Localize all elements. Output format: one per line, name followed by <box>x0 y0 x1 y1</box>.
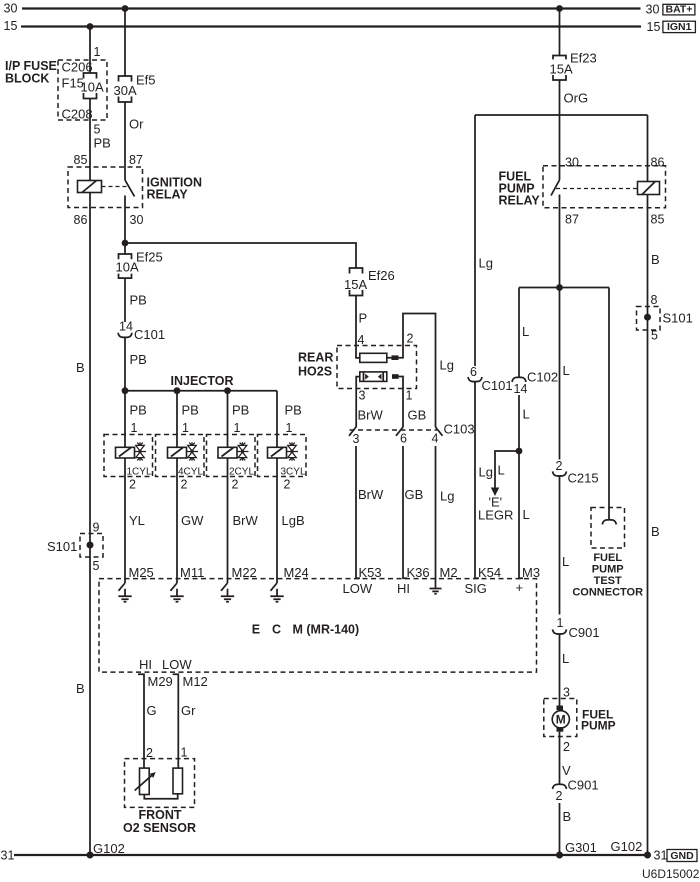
injector 4CYL valve symbol <box>187 442 199 461</box>
rear HO2S dashed box <box>337 346 417 389</box>
svg-text:S101: S101 <box>47 539 77 554</box>
junction on bus 30 at x=559.5 <box>556 5 563 12</box>
svg-text:+: + <box>516 580 524 595</box>
svg-text:C101: C101 <box>482 378 513 393</box>
svg-text:G301: G301 <box>565 840 597 855</box>
svg-text:U6D15002: U6D15002 <box>642 867 700 881</box>
wire branch from junction to Ef26 column <box>125 243 356 268</box>
injector 4CYL dashed box <box>156 435 205 477</box>
connector C103 tick at pin 6 <box>396 427 403 436</box>
fuel pump motor terminal top <box>557 706 564 711</box>
svg-text:GB: GB <box>405 487 424 502</box>
connector C901 symbol (pin 1) <box>553 629 567 634</box>
svg-text:1: 1 <box>182 421 189 435</box>
wire injector 4CYL column down to ECM pin M11 <box>176 391 178 583</box>
junction for EGR E branch <box>516 448 523 455</box>
svg-text:14: 14 <box>514 382 528 396</box>
svg-text:Lg: Lg <box>440 358 454 373</box>
front O2 sensor sensing element <box>135 768 156 794</box>
fuse Ef25 symbol <box>119 254 132 278</box>
svg-text:M: M <box>556 713 566 727</box>
wire from bus 15 down left column (to fuse F15) <box>89 27 91 74</box>
svg-text:G102: G102 <box>93 841 125 856</box>
svg-text:Ef25: Ef25 <box>136 249 163 264</box>
net IGN1 boxed label <box>663 21 696 33</box>
svg-text:3: 3 <box>359 389 366 403</box>
svg-text:HI: HI <box>139 657 152 672</box>
fuel pump test connector name <box>572 552 643 599</box>
svg-text:PB: PB <box>130 293 147 308</box>
svg-text:2: 2 <box>407 332 414 346</box>
svg-text:L: L <box>498 463 505 478</box>
svg-text:L: L <box>563 363 570 378</box>
wire injector 3CYL column down to ECM pin M24 <box>276 391 278 583</box>
svg-text:M2: M2 <box>440 565 458 580</box>
rear HO2S heater terminal <box>392 374 399 379</box>
svg-text:31: 31 <box>654 849 668 863</box>
svg-text:15: 15 <box>4 19 18 33</box>
svg-text:3: 3 <box>353 432 360 446</box>
connector C103 dashed line <box>350 429 438 431</box>
svg-text:OrG: OrG <box>564 91 589 106</box>
wire Ef23 to fuel pump relay pin 30 <box>559 80 561 180</box>
svg-text:IGN1: IGN1 <box>667 21 692 33</box>
connector C101 symbol (pin 6) <box>468 377 482 382</box>
ECM pin M22 tick <box>221 583 228 591</box>
svg-text:2: 2 <box>129 478 136 492</box>
wire C101 to injector bus and injector 1 down to ECM pin M25 <box>124 337 126 583</box>
arrow to E (LEGR) <box>491 488 499 497</box>
fuse F15 10A symbol <box>84 73 97 99</box>
svg-text:2: 2 <box>232 478 239 492</box>
net BAT+ boxed label <box>663 4 695 16</box>
svg-text:1: 1 <box>286 421 293 435</box>
svg-text:REAR: REAR <box>298 351 333 365</box>
wire fuel pump relay 87 down to junction and fuel pump <box>559 195 561 460</box>
svg-text:2: 2 <box>556 789 563 803</box>
injector 3CYL dashed box <box>258 435 307 477</box>
svg-text:O2 SENSOR: O2 SENSOR <box>123 821 196 835</box>
svg-text:30: 30 <box>646 3 660 17</box>
svg-text:1: 1 <box>181 746 188 760</box>
wire from Ef5 to ignition relay switch pin 87 <box>124 102 126 180</box>
wire HO2S heater pin 3 to C103 <box>356 377 360 428</box>
svg-text:B: B <box>76 360 85 375</box>
svg-text:M12: M12 <box>183 674 208 689</box>
svg-text:GB: GB <box>408 408 427 423</box>
svg-text:CONNECTOR: CONNECTOR <box>572 587 643 599</box>
svg-text:87: 87 <box>129 153 143 167</box>
svg-text:BrW: BrW <box>233 513 259 528</box>
front O2 sensor dashed box <box>125 759 195 808</box>
svg-text:B: B <box>76 681 85 696</box>
fuel pump dashed box <box>544 699 577 737</box>
wire bus 31 <box>14 854 648 856</box>
svg-text:2: 2 <box>556 459 563 473</box>
svg-text:2: 2 <box>563 740 570 754</box>
ECM pin M11 tick <box>171 583 178 591</box>
svg-text:30: 30 <box>565 156 579 170</box>
svg-text:Ef5: Ef5 <box>136 73 156 88</box>
wire Ef25 to connector C101 <box>124 278 126 322</box>
rear HO2S sensing element terminal <box>392 355 399 360</box>
svg-text:86: 86 <box>651 156 665 170</box>
ground inside ECM at M2 <box>430 589 442 594</box>
wire E branch <box>495 451 519 488</box>
wire left side Lg down to connector C101 pin 6 <box>474 115 476 366</box>
wire bus 30 <box>22 7 641 9</box>
svg-text:FUEL: FUEL <box>593 552 622 564</box>
svg-text:(MR-140): (MR-140) <box>306 623 359 637</box>
wire injector supply bus <box>125 390 277 392</box>
relay fuel pump relay dashed box <box>543 166 666 208</box>
junction injector bus at x=227.5 <box>224 387 231 394</box>
wire horizontal branch below relay <box>519 287 609 289</box>
splice S101 dot (left) <box>87 542 94 549</box>
splice S101 dashed box (right) <box>637 307 661 331</box>
junction on bus 30 at x=125 <box>122 5 129 12</box>
svg-text:85: 85 <box>651 213 665 227</box>
svg-text:15: 15 <box>647 20 661 34</box>
svg-text:LEGR: LEGR <box>478 508 513 523</box>
svg-text:1CYL: 1CYL <box>127 466 152 477</box>
svg-text:31: 31 <box>1 849 15 863</box>
svg-text:C102: C102 <box>527 370 558 385</box>
junction on bus 15 at x=90 <box>87 23 94 30</box>
wire C901 pin 2 to ground bus <box>559 803 561 855</box>
svg-text:FRONT: FRONT <box>138 808 181 822</box>
svg-text:2CYL: 2CYL <box>229 466 254 477</box>
svg-text:9: 9 <box>93 521 100 535</box>
svg-text:1: 1 <box>406 389 413 403</box>
svg-text:3: 3 <box>563 686 570 700</box>
svg-text:Gr: Gr <box>181 703 196 718</box>
svg-text:LOW: LOW <box>343 581 373 596</box>
svg-text:10A: 10A <box>116 259 139 274</box>
svg-text:10A: 10A <box>81 80 104 95</box>
wire test connector branch <box>608 288 610 520</box>
fuse Ef26 symbol <box>350 268 363 296</box>
wire C901 to fuel pump <box>559 634 561 706</box>
svg-text:14: 14 <box>119 320 133 334</box>
connector C103 tick at pin 4 <box>436 427 443 436</box>
svg-text:C103: C103 <box>444 422 475 437</box>
ground inside ECM at M11 <box>170 589 183 602</box>
injector 2CYL dashed box <box>207 435 256 477</box>
injector 4CYL coil <box>168 447 187 458</box>
svg-text:8: 8 <box>651 293 658 307</box>
injector 3CYL coil <box>268 447 287 458</box>
svg-text:BrW: BrW <box>358 408 384 423</box>
relay U ignition relay dashed box <box>68 167 143 208</box>
svg-text:30: 30 <box>130 213 144 227</box>
injector 2CYL valve symbol <box>237 442 249 461</box>
fuel pump test connector symbol <box>602 520 616 525</box>
svg-text:YL: YL <box>129 513 145 528</box>
svg-text:M22: M22 <box>232 565 257 580</box>
fuel pump test connector dashed box <box>591 508 625 549</box>
injector 1CYL dashed box <box>104 435 153 477</box>
svg-text:L: L <box>523 507 530 522</box>
wire C101 pin 6 to ECM pin K54 <box>475 382 479 579</box>
wire C103 to ECM pin K53 <box>356 446 360 578</box>
svg-text:6: 6 <box>470 365 477 379</box>
svg-text:1: 1 <box>94 45 101 59</box>
svg-text:K36: K36 <box>407 565 430 580</box>
ECM pin M24 tick <box>271 583 278 591</box>
svg-text:Ef26: Ef26 <box>368 268 395 283</box>
svg-text:HO2S: HO2S <box>298 365 332 379</box>
wire branch L to C102 and ECM pin M3 <box>518 288 520 378</box>
fuse Ef5 symbol <box>119 76 132 102</box>
svg-text:1: 1 <box>131 421 138 435</box>
svg-text:BAT+: BAT+ <box>666 4 693 16</box>
wire bus 15 <box>21 25 641 27</box>
ignition relay coil-switch dashed link <box>102 186 127 188</box>
connector C101 symbol <box>118 333 132 338</box>
svg-text:PUMP: PUMP <box>592 564 624 576</box>
svg-text:PB: PB <box>285 403 302 418</box>
svg-text:L: L <box>562 554 569 569</box>
svg-text:SIG: SIG <box>465 581 487 596</box>
wire right side down to fuel pump relay pin 86 <box>647 115 649 855</box>
svg-text:15A: 15A <box>550 61 573 76</box>
svg-text:INJECTOR: INJECTOR <box>171 374 234 388</box>
svg-text:PB: PB <box>94 136 111 151</box>
svg-text:M29: M29 <box>148 674 173 689</box>
connector C215 symbol <box>553 471 567 476</box>
svg-text:4CYL: 4CYL <box>178 466 203 477</box>
svg-text:LgB: LgB <box>282 513 305 528</box>
svg-text:K53: K53 <box>359 565 382 580</box>
connector C102 symbol <box>512 377 526 382</box>
svg-text:Lg: Lg <box>479 256 493 271</box>
svg-text:HI: HI <box>397 581 410 596</box>
wire C103 to ECM pin M2 <box>435 446 437 589</box>
svg-text:15A: 15A <box>344 277 367 292</box>
wire bus 30 to fuse Ef23 <box>559 9 561 56</box>
ground inside ECM at M22 <box>221 589 234 602</box>
svg-text:B: B <box>651 252 660 267</box>
svg-text:B: B <box>563 809 572 824</box>
svg-text:PUMP: PUMP <box>581 719 616 733</box>
injector 2CYL coil <box>218 447 237 458</box>
wire from fuse F15 down to ignition relay coil pin 85 and on down (left B wire) <box>89 99 91 856</box>
svg-text:C208: C208 <box>62 107 93 122</box>
svg-text:86: 86 <box>74 213 88 227</box>
splice S101 dashed box (left) <box>80 534 103 558</box>
svg-text:L: L <box>562 651 569 666</box>
svg-text:30: 30 <box>4 2 18 16</box>
wire injector 2CYL column down to ECM pin M22 <box>227 391 229 583</box>
svg-text:BrW: BrW <box>358 487 384 502</box>
junction injector bus at x=177 <box>174 387 181 394</box>
wire front O2 sensor bottom link <box>144 794 177 799</box>
svg-text:Or: Or <box>129 117 144 132</box>
svg-text:C901: C901 <box>569 625 600 640</box>
svg-text:2: 2 <box>181 478 188 492</box>
fuel pump relay switch arm <box>551 180 560 196</box>
splice S101 dot (right) <box>644 314 651 321</box>
I/P fuse block dashed box <box>58 60 107 120</box>
svg-text:L: L <box>523 407 530 422</box>
injector 1CYL coil <box>116 447 135 458</box>
svg-text:BLOCK: BLOCK <box>5 72 49 86</box>
wire from bus 30 down to fuse Ef5 <box>124 9 126 77</box>
connector C901 symbol (pin 2, facing down) <box>553 784 567 789</box>
fuse Ef23 symbol <box>553 56 566 81</box>
connector C103 tick at pin 3 <box>349 427 356 436</box>
svg-text:V: V <box>562 763 571 778</box>
fuel pump relay coil <box>638 182 660 195</box>
svg-text:85: 85 <box>74 153 88 167</box>
svg-text:C101: C101 <box>134 327 165 342</box>
svg-text:2: 2 <box>284 478 291 492</box>
svg-text:M11: M11 <box>180 565 204 580</box>
svg-text:LOW: LOW <box>162 657 192 672</box>
fuel pump motor terminal bottom <box>557 727 564 732</box>
injector 3CYL valve symbol <box>287 442 299 461</box>
wire C103 to ECM pin K36 <box>403 446 407 578</box>
svg-text:C901: C901 <box>568 778 599 793</box>
fuel pump motor M <box>552 711 569 728</box>
junction bus 31 at x=559.5 (G301) <box>556 852 563 859</box>
wire fuel pump to C901 pin 2 <box>559 732 561 785</box>
rear HO2S sensing element <box>360 353 387 362</box>
svg-text:G102: G102 <box>611 839 643 854</box>
svg-text:5: 5 <box>651 329 658 343</box>
svg-text:3CYL: 3CYL <box>281 466 306 477</box>
svg-text:S101: S101 <box>663 311 693 326</box>
wire ECM M29 to front O2 sensor <box>138 674 144 768</box>
ground inside ECM at M24 <box>270 589 283 602</box>
fuel pump relay coil-switch dashed link <box>556 188 638 190</box>
front O2 sensor heater element <box>173 768 183 794</box>
svg-text:RELAY: RELAY <box>147 188 189 202</box>
svg-text:C215: C215 <box>568 471 599 486</box>
svg-text:GND: GND <box>670 850 694 862</box>
svg-text:B: B <box>651 524 660 539</box>
svg-text:M: M <box>293 623 303 637</box>
svg-text:PB: PB <box>130 352 147 367</box>
junction bus 31 at x=90 <box>87 852 94 859</box>
rear HO2S heater element <box>360 372 387 382</box>
svg-text:C: C <box>272 623 281 637</box>
ignition relay switch lower contact / wire to junction <box>124 196 126 255</box>
svg-text:K54: K54 <box>478 565 501 580</box>
injector 1CYL valve symbol <box>135 442 147 461</box>
ignition relay coil <box>78 181 102 193</box>
svg-text:E: E <box>252 623 260 637</box>
svg-text:M3: M3 <box>522 565 540 580</box>
svg-text:Ef23: Ef23 <box>570 51 597 66</box>
ECM name E C M (MR-140) <box>252 623 359 637</box>
svg-text:M24: M24 <box>284 565 309 580</box>
svg-text:TEST: TEST <box>594 575 622 587</box>
ground inside ECM at M25 <box>118 589 131 602</box>
svg-text:Lg: Lg <box>479 465 493 480</box>
svg-text:P: P <box>359 311 368 326</box>
svg-text:4: 4 <box>432 432 439 446</box>
ECM dashed box <box>99 579 537 673</box>
svg-text:Lg: Lg <box>440 489 454 504</box>
wire C102 to ECM pin M3 <box>519 395 523 578</box>
ECM pin M25 tick <box>119 583 126 591</box>
junction bus 31 at x=647.5 (G102) <box>644 852 651 859</box>
wire solid loop top (relay coil feed) <box>475 114 648 116</box>
net GND boxed label <box>667 850 697 863</box>
svg-text:87: 87 <box>565 213 579 227</box>
wire C215 to C901 <box>559 476 561 615</box>
ignition relay switch arm <box>125 180 135 197</box>
wire HO2S pin 1 to C103 <box>399 377 403 428</box>
svg-text:5: 5 <box>94 123 101 137</box>
svg-text:1: 1 <box>557 616 564 630</box>
svg-text:GW: GW <box>181 513 204 528</box>
svg-text:PB: PB <box>232 403 249 418</box>
svg-text:6: 6 <box>400 432 407 446</box>
svg-text:M25: M25 <box>129 565 154 580</box>
svg-text:RELAY: RELAY <box>499 194 541 208</box>
svg-text:1: 1 <box>234 421 241 435</box>
junction below ignition relay <box>122 240 129 247</box>
wire HO2S pin2 loop (Lg) to connector C103 <box>387 314 436 428</box>
svg-text:L: L <box>522 324 529 339</box>
svg-text:30A: 30A <box>114 83 137 98</box>
junction injector bus at x=125 <box>122 387 129 394</box>
svg-text:PB: PB <box>182 403 199 418</box>
svg-text:G: G <box>147 703 157 718</box>
wire ECM M12 to front O2 sensor <box>173 674 179 768</box>
svg-text:PB: PB <box>130 403 147 418</box>
junction at branch <box>556 284 563 291</box>
svg-text:5: 5 <box>93 559 100 573</box>
wire Ef26 to rear HO2S pin 4 <box>356 296 360 358</box>
